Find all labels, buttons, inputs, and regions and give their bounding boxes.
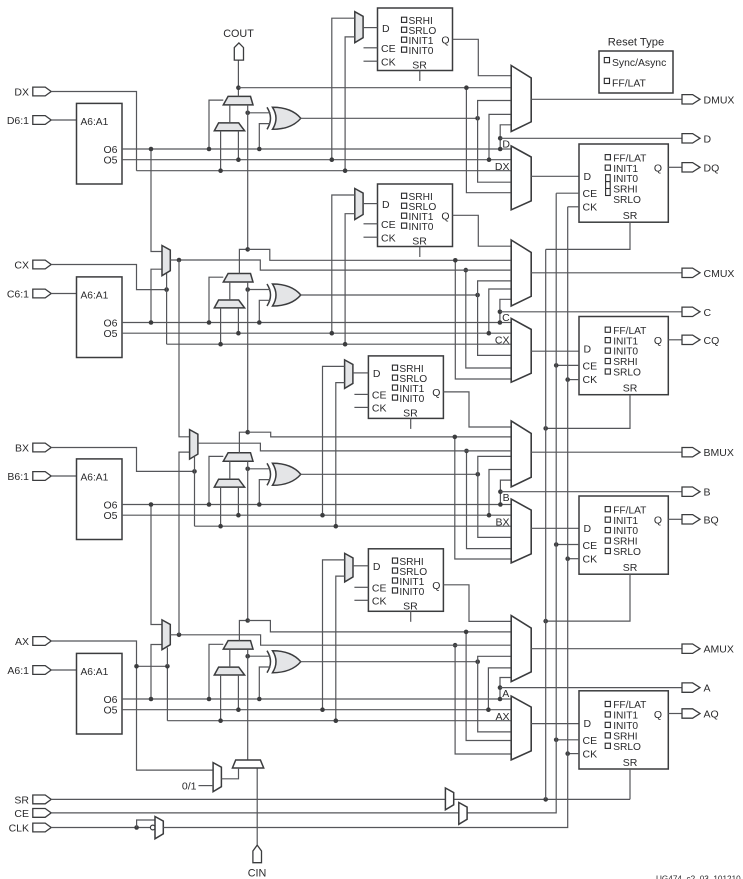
wire O5 to DI mux A [237, 675, 239, 710]
wire DX pin to X line [51, 92, 136, 171]
LUT B (A6:A1, O6/O5) [77, 459, 123, 540]
wire carry-in MUXCY B [247, 461, 249, 620]
wire O6 node B to OUTMUX [500, 480, 511, 504]
wire BX pin to tap [51, 448, 194, 472]
svg-text:SR: SR [623, 562, 638, 574]
svg-text:A6:A1: A6:A1 [81, 290, 109, 301]
mux DFFMUX (FF input select) [511, 146, 531, 210]
svg-text:CQ: CQ [704, 335, 720, 347]
svg-text:B6:1: B6:1 [7, 471, 29, 483]
junction CO C [453, 258, 458, 263]
wire XOR B out (S) [301, 473, 478, 475]
junction O5/B5FF [320, 513, 325, 518]
wire O5 line A [122, 709, 511, 711]
junction carry/XOR A [245, 654, 250, 659]
wire O5 to OUTMUX C [489, 289, 511, 333]
mux BFFMUX (FF input select) [511, 499, 531, 563]
output pin AQ [682, 709, 719, 721]
junction DX/D5FF [343, 168, 348, 173]
LUT A (A6:A1, O6/O5) [77, 653, 123, 734]
wire carry to XOR C [248, 289, 271, 291]
wire AX to DI mux A [220, 675, 222, 721]
junction O6 select D [207, 147, 212, 152]
svg-text:INIT1: INIT1 [613, 336, 638, 347]
output pin BQ [682, 514, 719, 526]
wire DX to DI mux D [220, 131, 222, 171]
junction S C [475, 293, 480, 298]
svg-text:CE: CE [381, 43, 396, 55]
svg-text:Q: Q [432, 387, 440, 399]
input pin CE [14, 808, 51, 820]
junction DX DI D [218, 168, 223, 173]
carry mux MUXCY B (MUXCY) [223, 453, 253, 462]
junction carry jog B [245, 430, 250, 435]
wire F7/F8 to FFMUX A [455, 645, 511, 754]
wire O6 line A [122, 698, 500, 700]
wire S to OUTMUX C [478, 281, 512, 356]
junction SR B [543, 619, 548, 624]
wire CO to FFMUX A [466, 632, 511, 741]
svg-text:BMUX: BMUX [704, 447, 734, 459]
svg-text:SR: SR [412, 60, 427, 72]
svg-text:DMUX: DMUX [704, 94, 735, 106]
junction BX/B5FF [334, 524, 339, 529]
XOR gate XOR C [267, 284, 271, 306]
wire O6 line D tail [500, 148, 511, 150]
junction O6 end B [498, 502, 503, 507]
FF B5 (B5FF) SR stub [410, 418, 412, 429]
svg-text:CMUX: CMUX [704, 268, 735, 280]
wire 0/1 mux out to CYINIT [221, 768, 238, 779]
svg-text:CE: CE [14, 808, 29, 820]
svg-text:CK: CK [372, 596, 387, 608]
FF C5 (C5FF) SR stub [419, 247, 421, 258]
wire SR bus (vertical) [545, 249, 547, 799]
svg-text:CE: CE [372, 583, 387, 595]
junction O5 up D [487, 157, 492, 162]
port CIN (carry in) [253, 845, 262, 863]
svg-text:Q: Q [654, 162, 662, 174]
svg-text:CK: CK [372, 403, 387, 415]
port COUT (carry out) [234, 43, 243, 60]
wire DFF SR [546, 222, 630, 249]
svg-text:BX: BX [15, 443, 29, 455]
wire O6 to XOR A [259, 667, 270, 699]
FF D5 (D5FF) CK stub [364, 60, 378, 62]
svg-text:SR: SR [623, 757, 638, 769]
wire O6 node D to OUTMUX [500, 125, 511, 149]
junction O5/A5FF [320, 707, 325, 712]
svg-text:SR: SR [623, 383, 638, 395]
junction carry jog C [245, 247, 250, 252]
junction O5/D5FF [330, 157, 335, 162]
FF D5 (D5FF) SR stub [419, 71, 421, 82]
svg-text:SRHI: SRHI [613, 185, 637, 196]
svg-text:CK: CK [381, 232, 396, 244]
junction O6 B / F7A [149, 502, 154, 507]
junction O6 D / F7B [149, 147, 154, 152]
junction CO D [464, 85, 469, 90]
wire CE bus to BFF [556, 544, 579, 546]
svg-text:INIT0: INIT0 [613, 721, 638, 732]
wire S to OUTMUX B [478, 456, 511, 537]
wire CK bus to DFF [568, 206, 579, 208]
FF B5 (B5FF) CK stub [354, 406, 368, 408]
wire C6:1 to LUT [51, 293, 76, 295]
wire AX to A5FF mux [336, 576, 345, 721]
svg-text:SR: SR [14, 794, 29, 806]
svg-text:O5: O5 [103, 155, 117, 167]
svg-text:INIT0: INIT0 [399, 394, 424, 405]
svg-text:D: D [584, 718, 592, 730]
svg-text:CE: CE [583, 361, 598, 373]
svg-text:CK: CK [583, 202, 598, 214]
wire D5FF Q to OUTMUX [453, 39, 512, 75]
wire CO to FFMUX C [455, 260, 511, 379]
wire MUXCY A out to carry jog [239, 621, 247, 641]
wire F7BMUX select [166, 273, 168, 289]
mux F7BMUX [162, 246, 170, 276]
FF D5 (D5FF) CE stub [364, 47, 378, 49]
svg-text:A6:1: A6:1 [7, 665, 29, 677]
LUT D (A6:A1, O6/O5) [77, 103, 123, 184]
wire CX line [167, 343, 512, 345]
svg-text:A6:A1: A6:A1 [81, 667, 109, 678]
wire node A to pin A [500, 687, 682, 689]
junction O5/C5FF [330, 331, 335, 336]
wire F7AMUX out [170, 635, 511, 645]
output mux BOUTMUX [511, 421, 531, 487]
wire F7/F8 to FFMUX C [466, 270, 511, 368]
svg-text:D: D [382, 23, 390, 35]
wire BOUTMUX out to BMUX [531, 451, 682, 453]
mux DI mux B (O5/X select) [214, 479, 244, 487]
wire O5 to OUTMUX D [489, 114, 511, 159]
svg-text:CK: CK [583, 554, 598, 566]
wire O6 node C to OUTMUX [500, 299, 511, 322]
junction O5 DI A [236, 707, 241, 712]
wire O5 line C [122, 332, 511, 334]
wire 0/1 stub [199, 785, 214, 787]
svg-text:AMUX: AMUX [704, 644, 734, 656]
svg-text:CK: CK [583, 374, 598, 386]
wire DI mux A out [229, 649, 231, 667]
wire CLK loop to mux [137, 820, 155, 828]
svg-text:Sync/Async: Sync/Async [612, 58, 666, 69]
wire MUXCY D out to COUT/CO [237, 61, 239, 97]
wire O6 line B tail [500, 504, 511, 506]
svg-text:SRLO: SRLO [613, 195, 641, 206]
wire MUXCY C out to carry jog [239, 249, 247, 273]
wire O5 to OUTMUX A [488, 668, 511, 710]
wire A5FF Q to OUTMUX [443, 585, 511, 622]
junction O6/XOR C [257, 320, 262, 325]
wire CO line D [238, 87, 511, 89]
output mux DOUTMUX [511, 66, 531, 132]
flip-flop/latch DFF/D5FF output register (FF/LAT, INIT1/INIT0/SRHI/SRLO) [579, 144, 668, 222]
mux AFFMUX (FF input select) [511, 696, 531, 760]
svg-text:C: C [704, 307, 712, 319]
wire mux to D5FF D [363, 27, 377, 29]
output pin BMUX [682, 447, 734, 459]
legend Reset Type box [599, 51, 673, 93]
wire BX to DI mux B [220, 487, 222, 526]
input pin D6:1 [7, 115, 51, 127]
wire carry-in MUXCY D [247, 105, 249, 250]
wire carry jog C to CO line [248, 249, 512, 260]
wire AFF SR to SR line [629, 769, 631, 799]
mux C5FF input select [355, 189, 363, 220]
wire O6 line C [122, 322, 500, 324]
junction S D [475, 116, 480, 121]
mux D5FF input select [355, 12, 363, 43]
svg-text:Q: Q [441, 211, 449, 223]
wire O5 to DI mux B [237, 487, 239, 515]
wire C5FF Q to OUTMUX [453, 215, 512, 246]
junction carry/XOR B [245, 467, 250, 472]
svg-text:INIT0: INIT0 [613, 347, 638, 358]
junction O6/XOR B [257, 502, 262, 507]
wire AOUTMUX out to AMUX [531, 648, 682, 650]
wire SR line [51, 798, 630, 800]
wire CX to DI mux C [220, 308, 222, 344]
svg-text:C: C [502, 312, 510, 324]
XOR gate XOR B [267, 463, 271, 485]
svg-text:DQ: DQ [704, 162, 720, 174]
mux DI mux D (O5/X select) [214, 123, 244, 131]
wire BFFMUX out to BFF D [531, 527, 579, 529]
svg-text:AX: AX [495, 711, 509, 723]
wire S to OUTMUX D [478, 101, 512, 183]
input pin CLK [9, 823, 52, 835]
svg-text:INIT0: INIT0 [613, 526, 638, 537]
svg-text:D: D [502, 139, 510, 151]
input pin CX [14, 260, 51, 272]
XOR gate XOR D [267, 107, 271, 129]
mux DI mux A (O5/X select) [214, 667, 244, 675]
svg-text:O5: O5 [103, 328, 117, 340]
svg-text:SRHI: SRHI [613, 731, 637, 742]
junction AX tap right (F7AMUX select) [165, 664, 170, 669]
svg-text:FF/LAT: FF/LAT [612, 79, 647, 90]
svg-text:SR: SR [623, 210, 638, 222]
svg-text:CE: CE [372, 390, 387, 402]
wire O6 to MUXCY B select [209, 456, 223, 504]
svg-text:D: D [373, 368, 381, 380]
wire O6 line A tail [500, 698, 511, 700]
wire mux to A5FF D [353, 565, 368, 567]
flip-flop FF C5 (C5FF) (storage element, SRHI/SRLO/INIT1/INIT0) [378, 184, 453, 248]
svg-text:SRHI: SRHI [613, 537, 637, 548]
wire O5 to A5FF mux [323, 560, 345, 710]
wire O6 B to F7AMUX [151, 505, 162, 625]
mux CFFMUX (FF input select) [511, 318, 531, 382]
junction CX/C5FF [343, 342, 348, 347]
wire F7A to F8MUX [179, 452, 190, 635]
svg-text:Reset Type: Reset Type [608, 37, 664, 49]
junction O6/XOR A [257, 697, 262, 702]
wire F7/F8 to FFMUX B [467, 451, 512, 549]
svg-text:A6:A1: A6:A1 [81, 117, 109, 128]
flip-flop/latch BFF/B5FF output register (FF/LAT, INIT1/INIT0/SRHI/SRLO) [579, 496, 668, 574]
wire CE bus to DFF [556, 192, 579, 194]
wire CX to C5FF mux [345, 214, 355, 345]
junction CK C [565, 377, 570, 382]
wire AX tap to AX line [137, 666, 168, 720]
svg-text:INIT1: INIT1 [613, 516, 638, 527]
svg-text:B: B [704, 487, 711, 499]
svg-text:CE: CE [583, 735, 598, 747]
svg-text:D: D [584, 344, 592, 356]
wire XOR D out (S) [301, 117, 478, 119]
input pin A6:1 [7, 665, 51, 677]
wire CK bus to BFF [568, 558, 579, 560]
svg-text:CE: CE [583, 540, 598, 552]
svg-text:SR: SR [412, 236, 427, 248]
FF B5 (B5FF) CE stub [354, 393, 368, 395]
flip-flop FF B5 (B5FF) (storage element, SRHI/SRLO/INIT1/INIT0) [368, 356, 443, 420]
wire O5 line D [122, 159, 511, 161]
svg-text:INIT0: INIT0 [613, 174, 638, 185]
svg-text:C6:1: C6:1 [7, 289, 29, 301]
svg-text:CX: CX [495, 335, 510, 347]
mux CE gate mux [459, 803, 467, 825]
output pin CMUX [682, 268, 734, 280]
wire A6:1 to LUT [51, 669, 76, 671]
wire O6 node A to OUTMUX [500, 678, 511, 700]
junction CE A [554, 738, 559, 743]
wire DOUTMUX out to DMUX [531, 98, 682, 100]
output mux AOUTMUX [511, 616, 531, 682]
input pin BX [15, 443, 51, 455]
svg-text:SR: SR [403, 600, 418, 612]
output pin B [682, 487, 711, 499]
svg-text:D6:1: D6:1 [7, 115, 29, 127]
junction CX DI C [218, 342, 223, 347]
junction carry/XOR C [245, 287, 250, 292]
svg-text:INIT1: INIT1 [613, 711, 638, 722]
junction CO D [236, 85, 241, 90]
junction SR C [543, 426, 548, 431]
wire carry jog A to CO line [248, 621, 512, 632]
wire AX line [167, 720, 511, 722]
junction carry jog A [245, 618, 250, 623]
svg-text:CK: CK [381, 56, 396, 68]
svg-text:A6:A1: A6:A1 [81, 472, 109, 483]
carry init mux CYINIT [232, 760, 263, 768]
svg-text:CE: CE [381, 219, 396, 231]
wire DI mux C out [229, 282, 231, 300]
junction F7/F8 C [464, 268, 469, 273]
wire CYINIT to MUXCY A [247, 649, 249, 760]
wire O5 line B [122, 514, 511, 516]
wire O6 to MUXCY C select [209, 277, 223, 322]
junction O6 select C [207, 320, 212, 325]
svg-text:Q: Q [654, 335, 662, 347]
wire O6 line C tail [500, 322, 511, 324]
wire DI mux B out [229, 461, 231, 479]
junction O6 A / F7A [149, 697, 154, 702]
svg-text:Q: Q [654, 514, 662, 526]
wire CO to FFMUX B [455, 437, 511, 559]
output pin AMUX [682, 644, 734, 656]
input pin AX [15, 636, 51, 648]
svg-text:CX: CX [14, 260, 29, 272]
input pin C6:1 [7, 289, 51, 301]
svg-text:SRLO: SRLO [613, 742, 641, 753]
wire carry jog B to CO line [248, 432, 512, 437]
junction O6 C / F7B [149, 320, 154, 325]
svg-text:FF/LAT: FF/LAT [613, 505, 646, 516]
wire AFFMUX out to AFF D [531, 723, 579, 725]
wire O5 to C5FF mux [332, 195, 355, 333]
wire CX tap down to CX line [166, 290, 168, 345]
junction O6 end D [498, 147, 503, 152]
wire O5 to D5FF mux [332, 18, 355, 160]
wire O6 to XOR B [259, 480, 270, 505]
wire O5 to OUTMUX B [489, 470, 511, 516]
node D (combinational output) [498, 136, 503, 141]
junction CK A [565, 751, 570, 756]
flip-flop/latch CFF/C5FF output register (FF/LAT, INIT1/INIT0/SRHI/SRLO) [579, 317, 668, 395]
FF C5 (C5FF) CE stub [364, 223, 378, 225]
svg-text:INIT0: INIT0 [409, 222, 434, 233]
mux SR gate mux [445, 788, 453, 810]
svg-text:0/1: 0/1 [182, 781, 197, 793]
output pin CQ [682, 335, 719, 347]
mux CLK invert mux [155, 817, 163, 839]
svg-text:D: D [584, 171, 592, 183]
svg-text:AQ: AQ [704, 709, 719, 721]
svg-text:O5: O5 [103, 510, 117, 522]
svg-text:D: D [382, 199, 390, 211]
wire CE bus to CFF [556, 364, 579, 366]
wire DFF Q to DQ [668, 166, 682, 168]
output pin D [682, 133, 712, 145]
wire CFFMUX out to CFF D [531, 350, 579, 352]
svg-text:BQ: BQ [704, 514, 719, 526]
svg-text:Q: Q [441, 35, 449, 47]
svg-text:D: D [584, 523, 592, 535]
mux 0/1 select mux [213, 763, 221, 792]
svg-text:BX: BX [495, 517, 509, 529]
svg-text:COUT: COUT [223, 28, 254, 40]
junction CE B [554, 542, 559, 547]
junction S A [475, 659, 480, 664]
mux A5FF input select [345, 553, 353, 582]
CLK invert bubble [150, 825, 155, 830]
svg-text:CK: CK [583, 748, 598, 760]
flip-flop FF D5 (D5FF) (storage element, SRHI/SRLO/INIT1/INIT0) [378, 8, 453, 72]
junction CO A [464, 630, 469, 635]
wire O6 to XOR C [259, 300, 270, 322]
svg-text:FF/LAT: FF/LAT [613, 700, 646, 711]
svg-text:UG474_c2_03_101210: UG474_c2_03_101210 [656, 875, 741, 879]
junction O5 up B [487, 513, 492, 518]
wire D6:1 to LUT [51, 119, 76, 121]
wire O6 C to F7BMUX [151, 269, 162, 322]
junction S B [476, 472, 481, 477]
junction BX DI B [218, 524, 223, 529]
wire F8MUX select [194, 457, 196, 471]
XOR gate XOR A [267, 651, 271, 673]
wire F7AMUX select [166, 648, 168, 667]
wire O6 D to F7BMUX [151, 149, 162, 252]
wire CK bus to AFF [568, 753, 579, 755]
wire carry to XOR A [248, 655, 271, 657]
input pin SR [14, 794, 51, 806]
junction O5 DI B [236, 513, 241, 518]
